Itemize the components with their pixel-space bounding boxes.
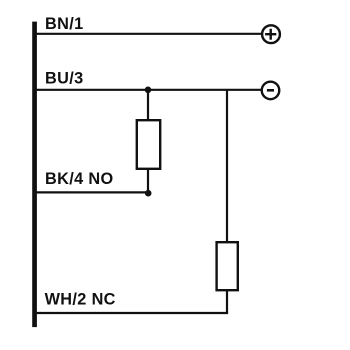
- wire vertical branch (BU/3 tee to load R2): [226, 90, 228, 243]
- svg-text:WH/2 NC: WH/2 NC: [45, 291, 116, 309]
- plus terminal circle: [262, 25, 280, 43]
- wire BU/3 to minus terminal: [36, 89, 261, 91]
- wire WH/2 NC to corner: [36, 312, 228, 314]
- minus terminal circle: [262, 82, 280, 100]
- sensor supply rail bar: [32, 22, 37, 328]
- minus sign: [267, 89, 274, 92]
- load R2: [217, 242, 238, 290]
- node junction dot on BK/4: [145, 190, 152, 197]
- node junction dot on BU/3: [145, 87, 152, 94]
- plus sign: [265, 33, 276, 35]
- wire vertical branch upper (BU/3 to load R1): [147, 90, 149, 121]
- wire BN/1 to plus terminal: [36, 33, 261, 35]
- svg-text:BK/4 NO: BK/4 NO: [45, 170, 114, 188]
- wire vertical branch lower (load R1 to BK/4): [147, 169, 149, 193]
- svg-text:BN/1: BN/1: [45, 15, 84, 33]
- wire BK/4 NO to node A: [36, 191, 148, 193]
- wire vertical branch (load R2 down to WH/2 corner): [226, 290, 228, 313]
- load R1: [137, 120, 160, 169]
- svg-text:BU/3: BU/3: [45, 69, 84, 87]
